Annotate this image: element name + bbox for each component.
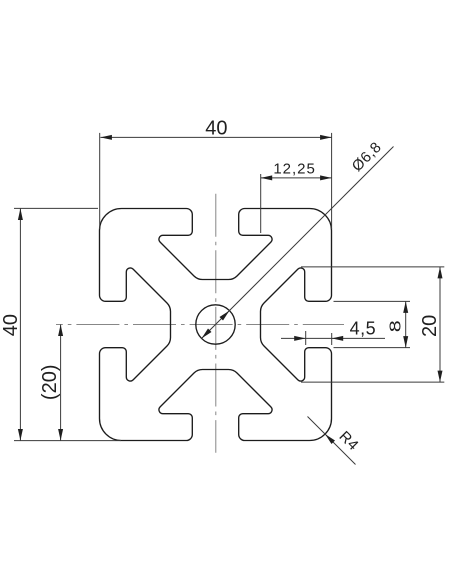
dimension 4,5: line and arrows [281,337,385,339]
svg-text:R4: R4 [336,428,362,454]
extension line top-right (40 top / 12,25) [331,133,333,229]
leader line diameter 6,8 [202,147,394,339]
dimension 12,25: line and arrows [261,177,332,179]
svg-text:20: 20 [419,315,441,337]
extension line 8 top [334,300,411,302]
dimension 8: line and arrows [405,301,407,347]
extension line 20 right top [301,266,444,268]
svg-text:(20): (20) [39,365,61,401]
extension line left 40 top [14,207,98,209]
dimension 40 top: line and arrows [100,136,331,138]
extension line 8 bottom [334,347,411,349]
center bore circle [196,305,235,344]
dimension (20): line and arrows [60,325,62,441]
extension line 20 right bottom [301,381,444,383]
leader line R4 [308,417,356,465]
svg-text:12,25: 12,25 [273,160,316,177]
svg-text:40: 40 [205,118,227,140]
extension line top-left (40 top) [99,133,101,229]
dimension 40 left: line and arrows [19,209,21,441]
vertical centerline [215,194,217,453]
svg-text:40: 40 [0,314,22,336]
dimension 20 right: line and arrows [439,267,441,382]
extension line 4,5 right [331,333,333,345]
svg-text:8: 8 [387,320,405,332]
extension line 12,25 left [260,174,262,233]
extension line bottom (40 left / (20)) [14,440,121,442]
horizontal centerline [56,324,344,326]
svg-text:4,5: 4,5 [350,318,377,338]
extension line 4,5 left [305,331,307,345]
extrusion profile outline [100,209,332,441]
svg-text:Ø6,8: Ø6,8 [349,139,385,175]
